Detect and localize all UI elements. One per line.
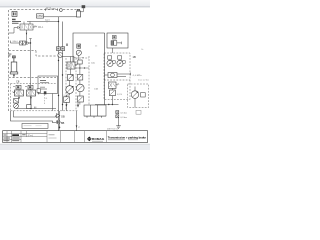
tank symbol — [116, 126, 121, 129]
dashed enclosure step — [36, 51, 63, 56]
test coupling TP boxes — [56, 47, 60, 51]
gearbox connector box R1 — [107, 33, 128, 48]
wire R1 down — [112, 48, 114, 53]
inner dashed enclosures — [11, 56, 90, 111]
svg-text:BOMAG: BOMAG — [92, 137, 105, 141]
brake cylinder — [104, 73, 131, 78]
junction — [58, 21, 59, 22]
pressure gauge — [76, 50, 81, 55]
solenoid valve Y3 — [25, 85, 36, 108]
svg-text:0,5 bar: 0,5 bar — [121, 112, 128, 115]
plug — [111, 41, 114, 46]
charge pump dashed box R3 — [128, 84, 149, 108]
machine boundary dashed frame — [9, 10, 77, 111]
riser wire — [30, 39, 32, 109]
dashed stub G — [44, 95, 46, 105]
svg-text:1B: 1B — [133, 55, 136, 59]
transmission dashed box R2 — [104, 53, 130, 100]
pump unit box L — [73, 33, 106, 116]
vertical bus B2 — [62, 22, 64, 111]
return line steps — [11, 111, 58, 123]
solenoid valve Y2 — [13, 85, 24, 99]
wire from frame — [9, 28, 18, 33]
brake enclosure dashed — [11, 84, 57, 111]
title block — [3, 131, 148, 143]
tank box — [84, 105, 106, 118]
col wire — [79, 64, 81, 74]
wire from legend box — [52, 94, 54, 111]
svg-text:C8: C8 — [16, 79, 20, 83]
wire R2 to manifold — [111, 96, 113, 105]
tick on wire — [46, 20, 48, 22]
BOMAG logo — [87, 136, 105, 141]
wire label box to bus — [44, 16, 59, 18]
svg-text:GB: GB — [61, 115, 65, 118]
svg-text:max 1,2 bar: max 1,2 bar — [138, 79, 149, 82]
svg-text:14A: 14A — [94, 88, 98, 91]
valve small — [77, 74, 82, 80]
coupling circle — [58, 53, 63, 58]
wire to connector X1 — [59, 16, 77, 18]
charge pump — [134, 87, 136, 91]
connector X1 body — [77, 11, 81, 17]
motor M1 — [107, 56, 115, 67]
R2 inner dashed divider — [104, 79, 130, 81]
small comp on row — [27, 105, 31, 109]
hand pump — [10, 56, 18, 78]
relief valve — [62, 95, 70, 111]
drain to tank — [118, 118, 120, 126]
label text top-left — [12, 19, 21, 24]
directional valve with X — [63, 57, 78, 70]
brake valve — [108, 82, 122, 96]
arrowhead — [26, 33, 27, 35]
dashed enclosure bottom (left section) — [9, 50, 36, 52]
motor M2 — [117, 56, 125, 67]
connector X1 wire to plug — [81, 8, 84, 12]
inner col components — [78, 60, 82, 64]
quick coupling circle on dashed line — [60, 9, 63, 12]
wire gauge down — [78, 55, 80, 60]
svg-text:M8x1: M8x1 — [13, 41, 19, 43]
lower valve — [77, 96, 83, 102]
svg-text:1TM: 1TM — [37, 14, 42, 18]
gauge port — [37, 89, 41, 93]
svg-text:BB: BB — [61, 122, 65, 125]
svg-text:Transmission + parking brake: Transmission + parking brake — [108, 136, 147, 140]
tick — [57, 8, 59, 10]
junction — [30, 108, 31, 109]
port label — [66, 44, 68, 47]
pump P1 — [66, 81, 74, 97]
check valve BB — [56, 120, 64, 125]
junction dots on buses — [58, 60, 63, 105]
drain stub — [59, 111, 61, 130]
gauge label box — [77, 44, 81, 48]
svg-text:(Pos): (Pos) — [28, 135, 33, 137]
connector X1 plug cap — [82, 5, 86, 8]
ticks — [33, 107, 35, 109]
svg-text:Ø 22 mm: Ø 22 mm — [46, 8, 56, 10]
svg-text:MA 1: MA 1 — [38, 26, 44, 29]
feed pump circle — [14, 104, 19, 109]
big gauge — [77, 84, 85, 92]
svg-text:0,3 bar: 0,3 bar — [121, 116, 128, 119]
svg-text:0,8 M: 0,8 M — [117, 94, 122, 96]
legend text box — [38, 76, 58, 94]
hand pump label — [8, 54, 11, 57]
page background — [0, 0, 150, 150]
horizontal wire upper — [27, 21, 59, 23]
svg-text:008 912 51: 008 912 51 — [107, 129, 119, 131]
main vertical bus B1 — [58, 17, 60, 131]
junction — [30, 42, 31, 43]
svg-text:0,5 l: 0,5 l — [62, 95, 66, 97]
dashed supply line C8 — [9, 77, 56, 79]
pressure compensator — [68, 69, 74, 81]
svg-text:~1,4 MPa: ~1,4 MPa — [132, 75, 142, 77]
filter cluster rows — [116, 110, 141, 118]
tick — [44, 8, 46, 10]
left col arrow comp — [77, 105, 79, 108]
wire feed row — [16, 108, 56, 110]
title block texts — [3, 134, 56, 141]
feed valve — [14, 99, 19, 103]
note box above title — [22, 124, 48, 129]
svg-text:G: G — [46, 98, 48, 100]
label box 1TM — [37, 14, 44, 18]
side ticks — [74, 57, 77, 59]
solenoid valve 1Y1 — [18, 22, 37, 31]
connector block top-left — [12, 11, 17, 16]
valve above title — [76, 111, 78, 131]
hand valve row — [11, 41, 31, 45]
wire valve to row — [26, 30, 28, 43]
check valve GB — [57, 114, 65, 119]
svg-text:1(4): 1(4) — [91, 62, 95, 64]
